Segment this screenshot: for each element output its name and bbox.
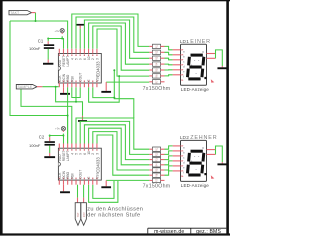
svg-text:C2: C2 bbox=[39, 135, 45, 140]
svg-text:3: 3 bbox=[95, 153, 99, 155]
svg-text:LED-Anzeige: LED-Anzeige bbox=[181, 87, 210, 92]
svg-text:100nF: 100nF bbox=[29, 143, 41, 148]
svg-text:SAMPLE: SAMPLE bbox=[18, 85, 33, 89]
svg-text:LD2: LD2 bbox=[180, 135, 190, 141]
svg-text:CD4033: CD4033 bbox=[96, 61, 101, 77]
svg-text:C1: C1 bbox=[38, 39, 44, 44]
svg-text:RBI: RBI bbox=[70, 173, 74, 178]
svg-text:LAMPT: LAMPT bbox=[66, 56, 70, 67]
svg-text:gez.: BMS: gez.: BMS bbox=[196, 229, 221, 235]
svg-text:EINER: EINER bbox=[190, 39, 211, 45]
svg-text:VSS: VSS bbox=[95, 75, 99, 81]
svg-text:LAMPT: LAMPT bbox=[66, 151, 70, 162]
svg-text:LD1: LD1 bbox=[180, 39, 190, 45]
svg-text:VSS: VSS bbox=[95, 172, 99, 178]
svg-text:COUT: COUT bbox=[79, 170, 83, 179]
svg-text:7x150Ohm: 7x150Ohm bbox=[143, 183, 171, 189]
svg-text:3: 3 bbox=[95, 58, 99, 60]
svg-text:RST: RST bbox=[82, 212, 86, 218]
svg-text:TKT: TKT bbox=[76, 212, 80, 217]
svg-text:ZEHNER: ZEHNER bbox=[190, 135, 217, 141]
svg-text:RBI: RBI bbox=[70, 76, 74, 81]
svg-text:+9v: +9v bbox=[54, 29, 59, 33]
svg-text:LED-Anzeige: LED-Anzeige bbox=[181, 183, 210, 188]
svg-text:COUT: COUT bbox=[79, 73, 83, 82]
svg-text:7x150Ohm: 7x150Ohm bbox=[143, 86, 171, 92]
svg-text:TAKT: TAKT bbox=[10, 11, 20, 15]
svg-text:m-wissen.de: m-wissen.de bbox=[154, 229, 184, 235]
svg-text:100nF: 100nF bbox=[29, 46, 41, 51]
svg-text:+9v: +9v bbox=[55, 126, 60, 130]
svg-text:der nächsten Stufe: der nächsten Stufe bbox=[87, 212, 140, 218]
svg-text:CD4033: CD4033 bbox=[96, 157, 101, 173]
